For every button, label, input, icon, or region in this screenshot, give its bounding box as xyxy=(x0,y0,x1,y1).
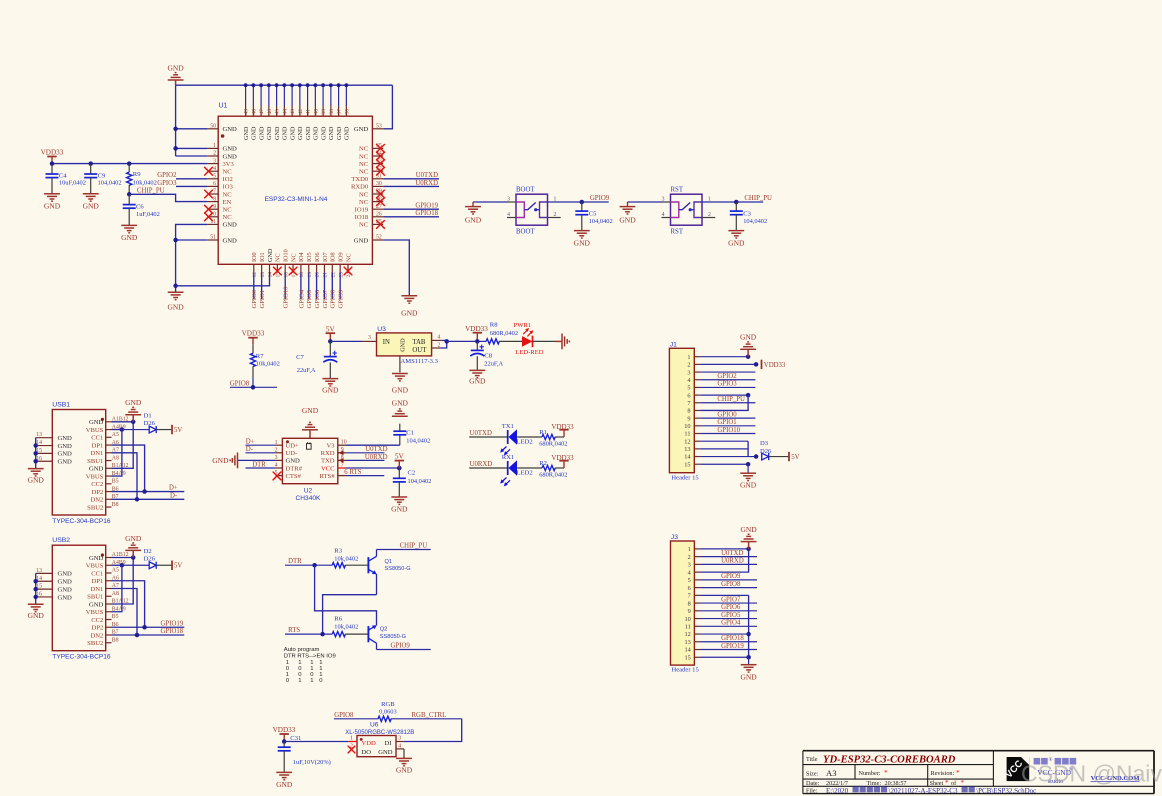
svg-text:TYPEC-304-BCP16: TYPEC-304-BCP16 xyxy=(52,518,111,525)
capacitor C9 104,0402 xyxy=(90,164,92,174)
svg-text:U1: U1 xyxy=(219,103,228,110)
svg-text:Title: Title xyxy=(806,756,818,763)
svg-text:D26: D26 xyxy=(144,420,156,427)
svg-text:GPIO19: GPIO19 xyxy=(721,643,744,650)
svg-text:U0TXD: U0TXD xyxy=(365,446,387,453)
USB1 right pin B6 DP2 xyxy=(106,491,112,493)
svg-text:41: 41 xyxy=(306,109,312,115)
svg-text:D3: D3 xyxy=(760,440,769,447)
svg-text:3: 3 xyxy=(368,335,371,341)
svg-text:GPIO8: GPIO8 xyxy=(330,289,337,308)
svg-text:UD+: UD+ xyxy=(286,443,300,450)
diode D2 D26 xyxy=(149,562,156,569)
svg-text:GPIO0: GPIO0 xyxy=(717,411,737,418)
svg-text:U6: U6 xyxy=(370,721,379,728)
svg-text:RXD: RXD xyxy=(321,450,335,457)
svg-text:12: 12 xyxy=(684,438,690,445)
U2 left pin 3 GND xyxy=(275,459,282,461)
wire USB2 DP1/DP2 GPIO19 xyxy=(112,581,145,628)
svg-text:1: 1 xyxy=(213,143,216,149)
U1 left pin 5 IO2 xyxy=(207,178,218,180)
svg-text:DTR: DTR xyxy=(288,558,302,565)
svg-text:NC: NC xyxy=(359,191,369,198)
svg-text:104,0402: 104,0402 xyxy=(406,438,430,445)
svg-text:GND: GND xyxy=(223,146,238,153)
svg-text:GND: GND xyxy=(302,406,319,415)
net GPIO18 at U1 pin26 xyxy=(383,216,439,218)
svg-text:U0RXD: U0RXD xyxy=(470,461,493,468)
U1 right pin 53 GND xyxy=(372,128,383,130)
svg-text:NC: NC xyxy=(290,253,297,262)
svg-text:12: 12 xyxy=(252,272,258,278)
svg-text:R7: R7 xyxy=(256,353,264,360)
svg-text:DTR#: DTR# xyxy=(286,465,303,472)
svg-text:IO1: IO1 xyxy=(259,252,266,262)
wire U2 GND pin3 xyxy=(238,459,276,461)
net GPIO10 at J1 pin11 xyxy=(700,433,755,435)
svg-text:VBUS: VBUS xyxy=(86,563,104,570)
svg-text:27: 27 xyxy=(376,204,382,210)
svg-text:SS8050-G: SS8050-G xyxy=(380,634,406,640)
svg-text:U0TXD: U0TXD xyxy=(721,550,743,557)
capacitor C6 1uF,0402 xyxy=(128,194,130,204)
svg-text:12: 12 xyxy=(685,631,691,638)
svg-text:GND: GND xyxy=(336,126,343,140)
U1 left pin 8 EN xyxy=(207,201,218,203)
svg-text:GND: GND xyxy=(58,443,73,450)
U2 right pin 7 VCC xyxy=(338,467,346,469)
U1 right pin 33 NC xyxy=(372,163,383,165)
svg-text:IN: IN xyxy=(383,339,390,346)
svg-text:GND: GND xyxy=(396,766,413,775)
svg-text:4: 4 xyxy=(213,166,216,172)
U1 right pin 27 IO19 xyxy=(372,208,383,210)
svg-text:TXD: TXD xyxy=(321,458,335,465)
svg-text:VDD33: VDD33 xyxy=(465,325,488,333)
svg-text:6: 6 xyxy=(687,392,690,399)
capacitor C2 104,0402 xyxy=(398,468,400,478)
svg-text:VDD33: VDD33 xyxy=(242,329,265,337)
svg-text:10: 10 xyxy=(684,423,690,430)
U1 left pin 3 3V3 xyxy=(207,163,218,165)
USB2 right pin A1B12 GND xyxy=(106,557,112,559)
wire USB2 GND pins to ground symbol xyxy=(112,558,134,605)
wire GND to RST pin3 xyxy=(628,201,663,203)
svg-text:0,0603: 0,0603 xyxy=(379,709,397,716)
svg-text:*: * xyxy=(884,768,888,777)
net U0RXD at J3 pin3 xyxy=(700,563,757,565)
wire J1 pin15 to GND xyxy=(700,463,748,465)
svg-text:5: 5 xyxy=(688,577,691,584)
svg-text:1: 1 xyxy=(319,672,322,678)
wire J1 pin1 to GND xyxy=(700,356,748,358)
svg-text:R9: R9 xyxy=(133,171,141,178)
net CHIP_PU wire to U1 EN pin8 xyxy=(129,194,207,201)
svg-text:C7: C7 xyxy=(296,354,304,361)
svg-text:C3: C3 xyxy=(743,211,751,218)
wire J1 pin3 xyxy=(700,371,755,373)
svg-text:1: 1 xyxy=(319,660,322,666)
svg-text:GPIO5: GPIO5 xyxy=(721,612,741,619)
net RGB_CTRL wire to U6 DI xyxy=(391,718,462,720)
header J1 Header 15 body xyxy=(669,348,694,472)
svg-text:GND: GND xyxy=(58,459,73,466)
svg-text:IO7: IO7 xyxy=(322,252,329,262)
svg-text:GPIO10: GPIO10 xyxy=(283,286,290,309)
U1 bottom pin 17 NC xyxy=(292,264,294,272)
USB1 right pin B4A9 VBUS xyxy=(106,475,112,477)
svg-text:D1: D1 xyxy=(144,412,152,419)
svg-text:22uF,A: 22uF,A xyxy=(297,367,316,374)
svg-text:GPIO7: GPIO7 xyxy=(721,596,741,603)
svg-text:GPIO6: GPIO6 xyxy=(314,289,321,308)
svg-text:6: 6 xyxy=(213,181,216,187)
LED RX1 LED2 (blue) xyxy=(507,461,509,475)
resistor R9 10k,0402 xyxy=(128,164,130,173)
U6 pin4 GND to ground xyxy=(396,748,404,750)
svg-text:NC: NC xyxy=(359,169,369,176)
svg-text:TXD0: TXD0 xyxy=(351,176,369,183)
ground GND below-left of U1 xyxy=(168,292,184,299)
resistor R6 10k,0402 xyxy=(332,632,345,637)
svg-text:VCC: VCC xyxy=(321,465,335,472)
U1 right pin 25 NC xyxy=(372,223,383,225)
svg-text:50: 50 xyxy=(210,124,216,130)
U2 right pin 9 RXD xyxy=(338,452,346,454)
wire J1 pin14 to D3 xyxy=(700,456,756,458)
svg-text:C5: C5 xyxy=(589,211,597,218)
svg-text:VDD33: VDD33 xyxy=(273,726,296,734)
ground GND under C2 xyxy=(391,497,407,504)
USB2 right pin A6 DP1 xyxy=(106,580,112,582)
svg-text:3: 3 xyxy=(398,736,401,742)
net GPIO9 at J3 pin5 xyxy=(700,579,757,581)
ground GND under C31 xyxy=(276,772,292,779)
svg-text:GND: GND xyxy=(276,780,293,789)
svg-text:LED-RED: LED-RED xyxy=(515,349,543,356)
node U1 lower GND rail (pins 11,51,14) xyxy=(176,224,208,292)
svg-text:GND: GND xyxy=(121,233,138,242)
svg-text:SBU2: SBU2 xyxy=(87,504,103,511)
component U2 CH340K body xyxy=(282,438,337,483)
svg-text:11: 11 xyxy=(684,431,690,438)
svg-text:46: 46 xyxy=(267,109,273,115)
U6 pin1 VDD xyxy=(348,741,357,743)
svg-text:LED2: LED2 xyxy=(517,439,533,446)
ground GND left of U2 (rotated) xyxy=(230,453,237,469)
resistor R7 10k,0402 xyxy=(252,344,254,353)
USB2 right pin B5 CC2 xyxy=(106,619,112,621)
wire BOOT pin1 to GPIO9 xyxy=(548,201,582,203)
svg-text:File:: File: xyxy=(806,788,818,795)
svg-text:CHIP_PU: CHIP_PU xyxy=(744,195,772,202)
svg-text:40: 40 xyxy=(313,109,319,115)
svg-text:IO4: IO4 xyxy=(298,252,305,262)
net GPIO7 at J3 pin8 xyxy=(700,602,757,604)
USB1 left pin 13 GND xyxy=(36,437,53,439)
svg-text:3: 3 xyxy=(213,158,216,164)
svg-text:GND: GND xyxy=(167,303,184,312)
capacitor C4 10uF,0402 xyxy=(51,164,53,174)
U1 bottom pin 24 NC xyxy=(347,264,349,272)
wire U2 V3 pin10 to C1 xyxy=(345,444,399,446)
svg-text:GND: GND xyxy=(58,594,73,601)
svg-text:47: 47 xyxy=(259,109,265,115)
svg-text:GND: GND xyxy=(740,672,757,681)
svg-text:GND: GND xyxy=(354,237,369,244)
net CHIP_PU at J1 pin7 xyxy=(700,402,755,404)
svg-text:21: 21 xyxy=(323,272,329,278)
svg-text:GND: GND xyxy=(401,309,418,318)
svg-text:R2: R2 xyxy=(539,460,547,467)
svg-text:GND: GND xyxy=(243,126,250,140)
svg-text:1: 1 xyxy=(286,672,289,678)
svg-text:8: 8 xyxy=(213,196,216,202)
wire D1 to 5V xyxy=(156,429,172,431)
resistor R2 680R,0402 xyxy=(517,467,542,469)
svg-text:NC: NC xyxy=(223,214,233,221)
net GPIO9 at Q2 collector xyxy=(377,649,431,651)
ground GND under USB1 left pins xyxy=(28,469,44,476)
svg-text:XL-5050RGBC-WS2812B: XL-5050RGBC-WS2812B xyxy=(345,730,414,736)
net U0TXD from U2 RXD pin9 xyxy=(345,452,384,454)
svg-text:5V: 5V xyxy=(395,452,405,460)
svg-text:CHIP_PU: CHIP_PU xyxy=(717,396,745,403)
U1 left pin 51 GND xyxy=(207,239,218,241)
ground GND top of U1 xyxy=(168,73,184,80)
wire J1 pin12-pin14 loop xyxy=(700,440,748,442)
ground GND below-right of U1 xyxy=(401,296,417,303)
svg-text:15: 15 xyxy=(684,461,690,468)
wire D3 to 5V xyxy=(769,456,789,458)
svg-text:9: 9 xyxy=(687,415,690,422)
svg-text:IO2: IO2 xyxy=(223,176,233,183)
U1 left pin 50 GND xyxy=(207,128,218,130)
U1 bottom pin 14 GND xyxy=(269,264,271,272)
svg-text:GND: GND xyxy=(282,126,289,140)
svg-text:DP1: DP1 xyxy=(92,442,104,449)
svg-text:Time:: Time: xyxy=(867,780,882,787)
U1 right pin 29 NC xyxy=(372,193,383,195)
svg-text:GPIO9: GPIO9 xyxy=(391,642,411,649)
svg-text:GPIO0: GPIO0 xyxy=(251,289,258,308)
svg-text:IO6: IO6 xyxy=(314,252,321,262)
pushbutton BOOT xyxy=(516,194,548,225)
wire Q1 emitter to RTS xyxy=(323,595,377,634)
U1 left pin 1 GND xyxy=(207,147,218,149)
svg-text:11: 11 xyxy=(210,219,216,225)
svg-text:22: 22 xyxy=(330,272,336,278)
svg-text:B5: B5 xyxy=(112,614,119,620)
svg-text:53: 53 xyxy=(376,124,382,130)
svg-text:680R,0402: 680R,0402 xyxy=(490,330,518,337)
svg-text:TX1: TX1 xyxy=(502,423,514,430)
USB1 right pin B1A12 GND xyxy=(106,467,112,469)
svg-text:U0TXD: U0TXD xyxy=(416,172,438,179)
svg-text:GND: GND xyxy=(223,237,238,244)
LED PWR1 LED-RED xyxy=(522,336,533,347)
svg-text:U0TXD: U0TXD xyxy=(470,430,492,437)
svg-text:13: 13 xyxy=(685,639,691,646)
svg-text:GPIO5: GPIO5 xyxy=(306,289,313,308)
svg-text:GND: GND xyxy=(266,126,273,140)
svg-text:5: 5 xyxy=(687,385,690,392)
svg-text:14: 14 xyxy=(268,272,274,278)
svg-text:42: 42 xyxy=(298,109,304,115)
svg-text:C9: C9 xyxy=(98,173,106,180)
svg-text:Header 15: Header 15 xyxy=(672,666,700,673)
resistor RGB 0,0603 xyxy=(378,716,391,721)
USB2 left pin 15 GND xyxy=(36,588,53,590)
net DTR wire xyxy=(285,564,332,566)
U1 left pin 10 NC xyxy=(207,216,218,218)
svg-text:30: 30 xyxy=(376,181,382,187)
BOOT pin4 stub xyxy=(507,217,516,219)
wire 5V to U3 pin3 xyxy=(330,340,362,342)
net GPIO19 at U1 pin27 xyxy=(383,208,439,210)
svg-text:GPIO4: GPIO4 xyxy=(721,620,741,627)
ground GND under C8 xyxy=(469,370,485,377)
svg-text:DTR RTS-->EN IO9: DTR RTS-->EN IO9 xyxy=(284,653,336,659)
svg-text:7: 7 xyxy=(688,593,691,600)
svg-text:NC: NC xyxy=(223,191,233,198)
svg-text:44: 44 xyxy=(282,109,288,115)
RST pin2 stub xyxy=(702,217,715,219)
svg-text:IO8: IO8 xyxy=(330,252,337,262)
svg-text:2: 2 xyxy=(687,362,690,369)
svg-text:EN: EN xyxy=(223,199,232,206)
ground GND above J3 xyxy=(741,534,757,541)
USB1 right pin A8 SBU1 xyxy=(106,460,112,462)
ground GND above J1 xyxy=(740,342,756,349)
svg-text:DN2: DN2 xyxy=(90,632,103,639)
wire VDD33 to U6 pin1 xyxy=(284,741,348,743)
USB1 right pin A6 DP1 xyxy=(106,444,112,446)
svg-text:D+: D+ xyxy=(246,439,255,446)
USB connector USB1 TYPEC-304-BCP16 xyxy=(52,410,105,516)
svg-text:DP2: DP2 xyxy=(92,625,104,632)
svg-text:GND: GND xyxy=(251,126,258,140)
svg-text:C8: C8 xyxy=(484,352,492,359)
svg-text:680R,0402: 680R,0402 xyxy=(539,471,567,478)
svg-text:DN1: DN1 xyxy=(90,586,103,593)
svg-text:1uF,10V(20%): 1uF,10V(20%) xyxy=(293,759,331,766)
svg-text:DN2: DN2 xyxy=(90,497,103,504)
USB2 right pin A8 SBU1 xyxy=(106,595,112,597)
svg-text:GND: GND xyxy=(28,611,45,620)
svg-text:GND: GND xyxy=(58,586,73,593)
component U6 XL-5050RGBC-WS2812B body xyxy=(357,736,396,757)
svg-text:1: 1 xyxy=(688,546,691,553)
svg-text:CC1: CC1 xyxy=(91,435,103,442)
svg-text:D-: D- xyxy=(170,492,178,499)
node CHIP_PU at R9/C6 xyxy=(127,192,132,197)
svg-text:16: 16 xyxy=(283,272,289,278)
svg-text:RGB_CTRL: RGB_CTRL xyxy=(412,712,447,719)
svg-text:GND: GND xyxy=(223,153,238,160)
wire J3 pin15 to GND xyxy=(700,656,748,658)
svg-text:NC: NC xyxy=(359,199,369,206)
ground GND above USB2 xyxy=(125,543,141,550)
USB1 left pin 16 GND xyxy=(36,460,53,462)
svg-text:15: 15 xyxy=(685,654,691,661)
svg-text:NC: NC xyxy=(359,146,369,153)
svg-text:GND: GND xyxy=(392,398,409,407)
svg-text:Header 15: Header 15 xyxy=(671,474,699,481)
svg-text:GND: GND xyxy=(58,435,73,442)
net GPIO19 at J3 pin14 xyxy=(700,649,757,651)
U6 pin3 DI stub xyxy=(396,741,404,743)
U1 right pin 35 NC xyxy=(372,147,383,149)
U2 left pin 1 UD+ xyxy=(275,444,282,446)
wire J1 pin6-pin8 loop xyxy=(700,394,748,396)
svg-text:43: 43 xyxy=(290,109,296,115)
svg-text:4: 4 xyxy=(398,743,401,749)
svg-text:2: 2 xyxy=(213,151,216,157)
svg-text:GND: GND xyxy=(125,398,142,407)
svg-text:GPIO9: GPIO9 xyxy=(590,195,610,202)
svg-text:7: 7 xyxy=(213,189,216,195)
svg-text:GPIO19: GPIO19 xyxy=(415,203,438,210)
svg-text:5: 5 xyxy=(213,174,216,180)
RST pin4 stub xyxy=(662,217,671,219)
svg-text:GND: GND xyxy=(344,126,351,140)
net GPIO3 to U1 pin6 xyxy=(176,185,207,187)
svg-text:37: 37 xyxy=(337,109,343,115)
svg-text:GPIO3: GPIO3 xyxy=(717,381,737,388)
U1 right pin 34 NC xyxy=(372,155,383,157)
svg-text:C1: C1 xyxy=(406,429,414,436)
svg-text:GND: GND xyxy=(465,216,482,225)
svg-text:BOOT: BOOT xyxy=(516,228,535,235)
svg-text:VDD33: VDD33 xyxy=(41,148,64,156)
power 5V at USB1 xyxy=(171,425,173,434)
U1 bottom pin 20 IO6 xyxy=(316,264,318,272)
svg-text:19: 19 xyxy=(307,272,313,278)
logo company name text xyxy=(1034,758,1041,765)
node U1 left GND rail (pins 50,1,2) xyxy=(175,85,177,156)
svg-text:680R,0402: 680R,0402 xyxy=(539,440,567,447)
svg-text:GPIO18: GPIO18 xyxy=(721,635,744,642)
svg-text:8: 8 xyxy=(687,408,690,415)
svg-text:GND: GND xyxy=(223,126,238,133)
U1 right pin 30 RXD0 xyxy=(372,185,383,187)
U1 left pin 7 NC xyxy=(207,193,218,195)
USB1 right pin B5 CC2 xyxy=(106,483,112,485)
wire USB2 VBUS bus xyxy=(112,564,122,566)
svg-text:R8: R8 xyxy=(490,322,498,329)
svg-text:U2: U2 xyxy=(304,487,313,494)
U1 left pin 9 NC xyxy=(207,208,218,210)
svg-text:GND: GND xyxy=(728,239,745,248)
svg-text:GND: GND xyxy=(58,571,73,578)
svg-text:9: 9 xyxy=(688,608,691,615)
ground GND under C7 xyxy=(322,379,338,386)
svg-text:CC1: CC1 xyxy=(91,570,103,577)
svg-text:USB1: USB1 xyxy=(52,401,70,408)
regulator U3 AMS1117-3.3 xyxy=(377,333,432,356)
USB1 right pin B7 DN2 xyxy=(106,498,112,500)
wire USB2 DN1/DN2 GPIO18 xyxy=(112,589,138,636)
U1 bottom pin 19 IO5 xyxy=(308,264,310,272)
svg-text:13: 13 xyxy=(260,272,266,278)
wire U3 output to VDD33 xyxy=(447,340,478,342)
svg-text:*: * xyxy=(945,779,949,787)
svg-text:C4: C4 xyxy=(59,173,67,180)
svg-text:10uF,0402: 10uF,0402 xyxy=(59,180,86,187)
net D- to U2 pin2 xyxy=(246,452,276,454)
svg-text:E:\2020: E:\2020 xyxy=(826,787,849,795)
